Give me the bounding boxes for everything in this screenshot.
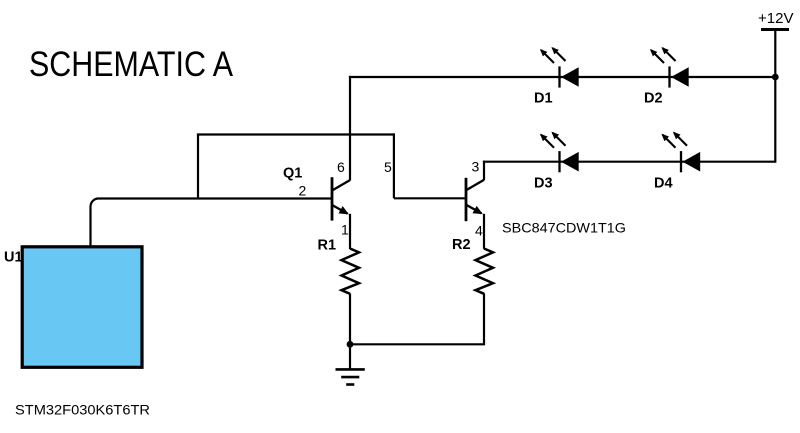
svg-text:D2: D2 — [644, 91, 663, 107]
wire R1 bottom to ground node — [349, 294, 351, 345]
led D2 — [651, 48, 689, 88]
svg-text:STM32F030K6T6TR: STM32F030K6T6TR — [15, 402, 150, 418]
wire Q1B collector vertical — [483, 161, 485, 181]
led D1 — [541, 48, 579, 88]
resistor R1 — [342, 249, 360, 294]
svg-text:2: 2 — [299, 183, 307, 199]
svg-text:3: 3 — [472, 159, 480, 175]
svg-text:4: 4 — [475, 223, 483, 239]
svg-text:SBC847CDW1T1G: SBC847CDW1T1G — [502, 220, 626, 236]
wire +12V vertical — [774, 30, 776, 163]
wire branch down to Q1B base (node 5) — [393, 133, 395, 198]
transistor Q1 (left half, pins 1,2,6) — [332, 177, 350, 220]
svg-text:6: 6 — [337, 159, 345, 175]
wire Q1B emitter vertical — [483, 214, 485, 249]
svg-text:Q1: Q1 — [283, 166, 302, 182]
wire Q1B base horizontal — [394, 197, 466, 199]
resistor R2 — [476, 249, 494, 294]
power +12V bar — [761, 28, 789, 31]
wire top rail y=77 — [349, 76, 775, 78]
ic U1 body — [22, 247, 142, 367]
svg-text:U1: U1 — [4, 250, 23, 266]
led D4 — [663, 133, 701, 173]
ground — [336, 344, 365, 384]
junction dot at ground node — [347, 341, 354, 348]
svg-text:D3: D3 — [534, 176, 553, 192]
wire ground node to R2 bottom — [350, 293, 484, 344]
svg-text:+12V: +12V — [758, 10, 793, 27]
wire Q1 collector vertical — [349, 76, 351, 181]
svg-text:D1: D1 — [534, 91, 553, 107]
svg-text:R1: R1 — [318, 238, 337, 254]
wire base branch vertical at x=198 — [197, 135, 199, 199]
transistor Q1B (right half, pins 3,4,5) — [466, 178, 484, 221]
wire Q1 emitter vertical — [349, 214, 351, 249]
svg-text:SCHEMATIC A: SCHEMATIC A — [29, 45, 234, 84]
svg-text:D4: D4 — [654, 176, 673, 192]
svg-text:5: 5 — [384, 159, 392, 175]
wire U1 top to Q1 base (rounded corner) — [91, 199, 333, 247]
svg-text:1: 1 — [341, 222, 349, 238]
wire branch horizontal y=134.5 — [197, 133, 395, 135]
led D3 — [541, 133, 579, 173]
junction dot top rail / +12V — [772, 74, 779, 81]
svg-text:R2: R2 — [452, 237, 471, 253]
wire second rail y=161.7 — [483, 161, 775, 163]
